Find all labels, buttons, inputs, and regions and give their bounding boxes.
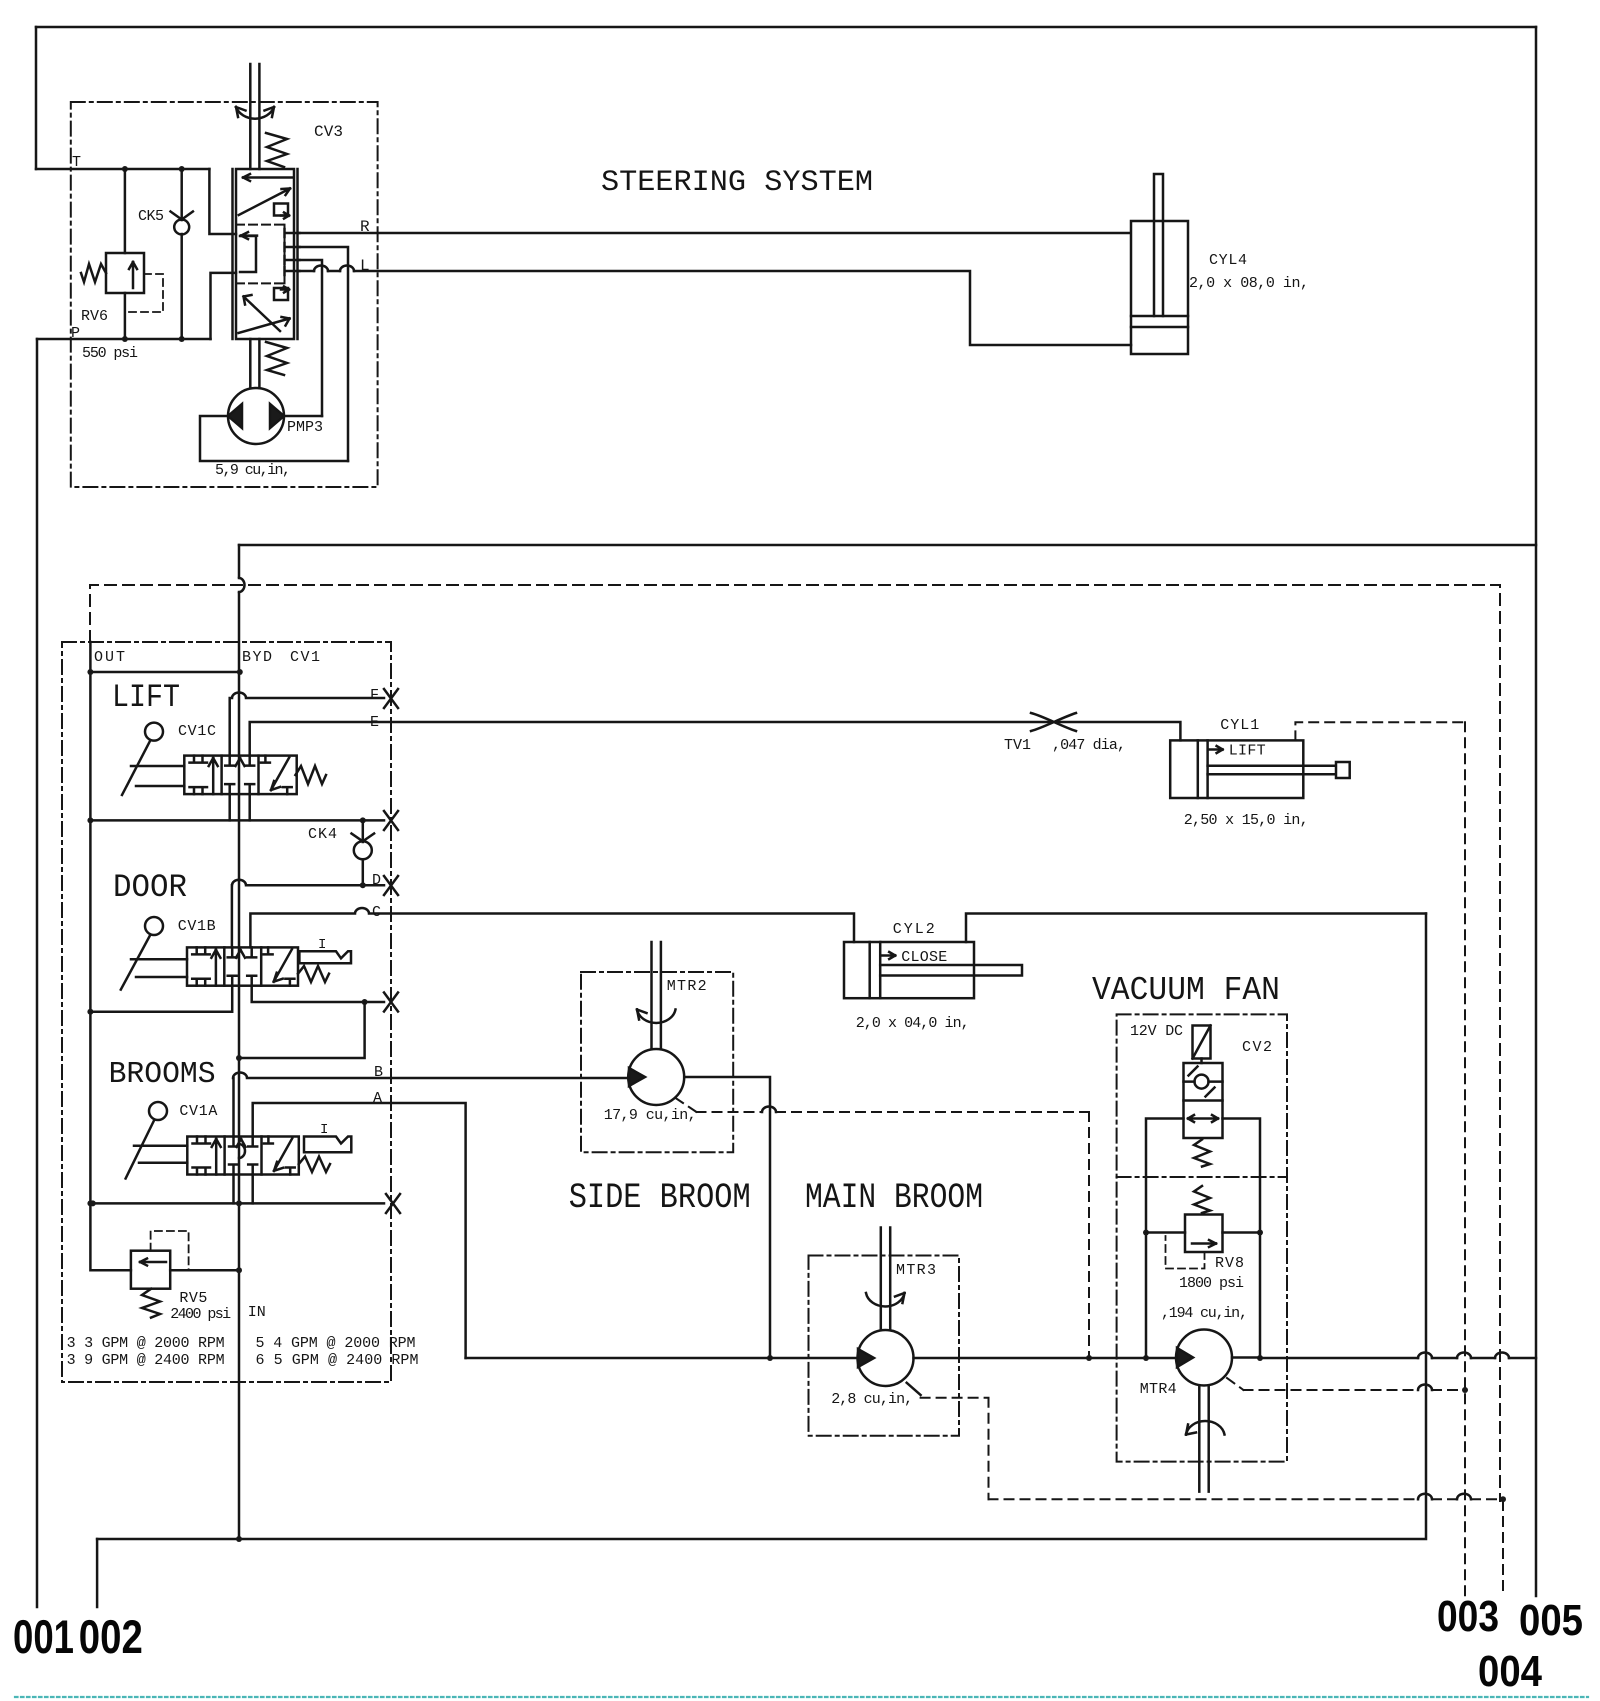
wire MTR2 case drain (dashed, jump over x=770): [676, 1098, 1090, 1358]
plug X: [386, 1194, 400, 1213]
detent CV1B: [299, 951, 351, 963]
svg-text:D: D: [372, 872, 381, 889]
svg-text:L: L: [360, 257, 370, 275]
svg-text:MTR2: MTR2: [667, 978, 707, 995]
CV3 top envelope internals: [243, 174, 292, 181]
wire bottom drain bus (dashed, jumps at 1426,1465): [989, 1498, 1504, 1500]
svg-text:MTR3: MTR3: [896, 1262, 936, 1279]
svg-text:BROOMS: BROOMS: [109, 1057, 216, 1092]
wire CV2 right branch: [1223, 1119, 1261, 1359]
svg-text:TV1: TV1: [1004, 737, 1031, 754]
spring CV2: [1194, 1140, 1210, 1167]
svg-text:PMP3: PMP3: [287, 419, 323, 436]
wire CV1B lower-right port to plug: [252, 986, 384, 1002]
wire B line (jump over BYD): [233, 1073, 628, 1137]
CV3 stem: [250, 64, 259, 169]
svg-text:5,9 cu,in,: 5,9 cu,in,: [215, 462, 291, 479]
svg-text:CV1: CV1: [290, 649, 320, 666]
motor MTR4 shaft: [1199, 1386, 1208, 1492]
svg-text:6 5 GPM @ 2400 RPM: 6 5 GPM @ 2400 RPM: [256, 1352, 419, 1369]
wire branch to BYD: [239, 1002, 365, 1058]
lever CV1A: [149, 1102, 167, 1120]
svg-text:CV3: CV3: [314, 123, 343, 141]
svg-text:3 3 GPM @ 2000 RPM: 3 3 GPM @ 2000 RPM: [67, 1335, 225, 1352]
spring CV3 top: [266, 133, 287, 167]
spring CV1A: [299, 1157, 330, 1173]
wire P line: [37, 338, 211, 341]
wire C line (jump over CK4 branch): [250, 908, 854, 947]
wire LIFT box top: [90, 671, 239, 674]
wire BYD/IN vertical (jump over dashed at 585): [238, 545, 241, 1539]
lever CV1C: [145, 723, 163, 741]
CV3 body: [236, 169, 294, 339]
relief valve RV6: [124, 169, 127, 253]
CV3 middle envelope internals: [241, 232, 257, 239]
wire page 002 stub: [96, 1539, 99, 1607]
scanner edge line: [15, 1696, 1588, 1698]
svg-text:2400 psi: 2400 psi: [170, 1306, 231, 1323]
svg-text:T: T: [72, 154, 81, 171]
svg-text:2,50 x 15,0 in,: 2,50 x 15,0 in,: [1184, 812, 1309, 829]
wire port F: [230, 693, 384, 756]
svg-text:CV1C: CV1C: [178, 723, 216, 740]
wire left border upper: [35, 27, 38, 169]
wire MTR2 out: [684, 1077, 770, 1358]
svg-text:550 psi: 550 psi: [82, 345, 138, 362]
cylinder CYL4: [1131, 221, 1188, 354]
valve block CV1 enclosure (dash-dot): [62, 642, 391, 1382]
motor MTR2: [652, 942, 661, 1049]
wire BROOMS box bottom: [93, 1202, 384, 1205]
wire CV3 port to pump loop: [300, 247, 349, 461]
svg-text:2,0 x 08,0 in,: 2,0 x 08,0 in,: [1189, 275, 1309, 292]
spring CV1B: [298, 966, 329, 982]
svg-text:CV1B: CV1B: [178, 918, 216, 935]
check valve CK4: [362, 820, 365, 842]
wire page 004 dashed stub: [1502, 1501, 1504, 1596]
svg-text:VACUUM FAN: VACUUM FAN: [1092, 972, 1280, 1009]
wire tank return (C side): [97, 914, 1426, 1540]
svg-text:IN: IN: [248, 1304, 266, 1321]
solenoid CV2: [1193, 1026, 1211, 1059]
svg-text:003: 003: [1437, 1592, 1499, 1641]
wire LIFT box bottom: [90, 819, 384, 822]
wire L line (with jumps over x=322 and x=348): [300, 271, 1132, 345]
svg-text:RV5: RV5: [179, 1290, 207, 1307]
svg-text:LIFT: LIFT: [1229, 743, 1266, 760]
spring CV3 bottom: [266, 342, 287, 375]
svg-text:002: 002: [79, 1610, 143, 1663]
plug X: [384, 993, 398, 1012]
wire CV2 left branch: [1146, 1119, 1184, 1359]
check valve CK5: [180, 169, 183, 220]
node T junction CK5: [122, 166, 128, 172]
svg-text:OUT: OUT: [94, 649, 125, 666]
valve CV3: [233, 169, 300, 339]
motor MTR3 enclosure: [809, 1256, 960, 1436]
plug X at F: [384, 689, 398, 708]
label LIFT arrow: [1209, 746, 1223, 753]
svg-text:17,9 cu,in,: 17,9 cu,in,: [604, 1107, 697, 1124]
label CLOSE arrow: [881, 952, 895, 959]
svg-text:RV6: RV6: [81, 308, 108, 325]
svg-text:,047 dia,: ,047 dia,: [1052, 737, 1126, 754]
wire CYL1 drain (dashed): [1295, 722, 1465, 740]
svg-text:MTR4: MTR4: [1140, 1381, 1177, 1398]
svg-text:CV1A: CV1A: [179, 1103, 217, 1120]
lever CV1B: [145, 917, 163, 935]
wire T line: [36, 168, 209, 171]
svg-text:A: A: [373, 1090, 382, 1107]
svg-text:R: R: [360, 218, 370, 236]
wire BYD jump inside CV1A: [239, 1144, 245, 1158]
plug X at D: [384, 876, 398, 895]
cylinder CYL2: [844, 942, 974, 998]
svg-text:CK4: CK4: [308, 826, 337, 843]
motor MTR2 enclosure: [581, 972, 733, 1152]
svg-text:F: F: [370, 687, 379, 704]
outer dashed enclosure: [90, 585, 1500, 1501]
svg-text:P: P: [71, 325, 80, 342]
pump PMP3: [250, 339, 259, 388]
wire MTR3 case drain: [907, 1383, 921, 1395]
svg-text:005: 005: [1519, 1596, 1583, 1645]
CV3 bottom envelope internals: [244, 295, 281, 331]
svg-text:CLOSE: CLOSE: [901, 949, 947, 966]
svg-text:I: I: [318, 937, 326, 953]
relief valve RV8: [1194, 1186, 1210, 1213]
wire drain bus 003 (dashed vertical): [1464, 722, 1466, 1596]
wire main line right of MTR4 (jumps at 1426,1465,1503): [1232, 1356, 1536, 1359]
motor MTR3: [881, 1228, 890, 1331]
svg-text:RV8: RV8: [1215, 1255, 1244, 1272]
wire DOOR box bottom: [90, 986, 232, 1012]
svg-text:1800 psi: 1800 psi: [1179, 1275, 1244, 1292]
svg-text:LIFT: LIFT: [112, 679, 180, 716]
wire top border: [36, 26, 1536, 29]
relief valve RV5: [131, 1251, 170, 1289]
svg-text:5 4 GPM @ 2000 RPM: 5 4 GPM @ 2000 RPM: [256, 1335, 416, 1352]
svg-text:B: B: [374, 1064, 383, 1081]
wire pump loop: [200, 416, 348, 461]
valve CV1A: [187, 1137, 298, 1175]
steering enclosure (dash-dot box): [71, 102, 378, 487]
svg-text:I: I: [320, 1122, 328, 1138]
wire right border (page 005 line): [1535, 27, 1538, 1596]
valve CV2: [1184, 1063, 1223, 1138]
svg-text:CYL4: CYL4: [1209, 252, 1247, 269]
vacuum fan enclosure (dash-dot): [1117, 1014, 1287, 1461]
svg-text:CYL2: CYL2: [893, 921, 935, 938]
svg-text:2,0 x 04,0 in,: 2,0 x 04,0 in,: [856, 1015, 970, 1032]
wire lower system top line: [239, 544, 1536, 547]
svg-text:2,8 cu,in,: 2,8 cu,in,: [831, 1391, 913, 1408]
CV3 right port ticks: [285, 229, 300, 237]
wire D line (jump over BYD): [232, 880, 384, 948]
valve CV1B: [187, 947, 298, 985]
svg-text:BYD: BYD: [242, 649, 272, 666]
wire P port path into CV3: [211, 273, 237, 339]
svg-text:STEERING SYSTEM: STEERING SYSTEM: [601, 166, 873, 200]
wire main broom line: [466, 1357, 1176, 1360]
motor MTR4: [1176, 1330, 1232, 1386]
plug X below F: [384, 811, 398, 830]
svg-text:MAIN BROOM: MAIN BROOM: [805, 1178, 983, 1218]
svg-text:3 9 GPM @ 2400 RPM: 3 9 GPM @ 2400 RPM: [67, 1352, 225, 1369]
svg-text:DOOR: DOOR: [113, 869, 187, 906]
svg-text:12V DC: 12V DC: [1130, 1023, 1183, 1040]
wire CYL2 rod side return: [966, 914, 1426, 943]
svg-text:C: C: [372, 904, 381, 921]
spring CV1C: [295, 766, 326, 784]
wire OUT vertical: [90, 642, 130, 1270]
svg-text:CYL1: CYL1: [1220, 717, 1259, 734]
wire left border lower (page 001 line): [36, 339, 39, 1607]
valve CV1C: [184, 756, 296, 795]
svg-text:E: E: [370, 714, 379, 731]
detent CV1A: [304, 1137, 351, 1153]
wire A line: [253, 1103, 466, 1358]
wire MTR4 case drain (dashed, jump at 1426): [1227, 1378, 1465, 1390]
svg-text:CK5: CK5: [138, 208, 164, 225]
throttle TV1: [1031, 713, 1076, 731]
svg-text:004: 004: [1478, 1647, 1542, 1696]
svg-text:SIDE BROOM: SIDE BROOM: [569, 1178, 751, 1218]
svg-text:CV2: CV2: [1242, 1039, 1272, 1056]
CV3 rotation arrow: [236, 107, 274, 119]
svg-text:,194 cu,in,: ,194 cu,in,: [1161, 1305, 1248, 1322]
cylinder CYL1: [1170, 740, 1303, 798]
wire T port path into CV3: [209, 169, 236, 234]
wire CV3 port to pump right: [300, 260, 323, 416]
svg-text:001: 001: [13, 1610, 74, 1663]
wire port E: [250, 722, 1181, 756]
CV3 side rails: [233, 169, 298, 339]
wire R line: [300, 232, 1131, 235]
